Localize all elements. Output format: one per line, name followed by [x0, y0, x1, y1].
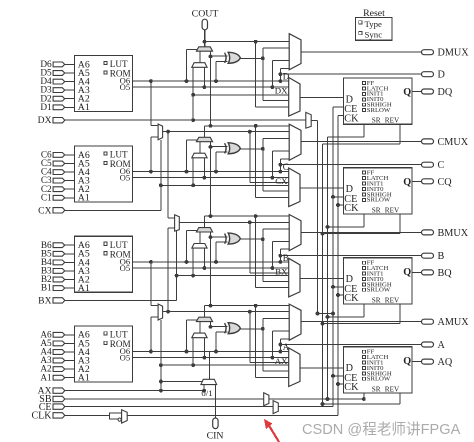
wire carry tap to output mux [205, 215, 290, 217]
wire XOR to output mux [262, 139, 264, 191]
wire [65, 188, 75, 190]
output pin CMUX [422, 139, 434, 144]
input pin B5 [53, 251, 65, 256]
wire CK branch [338, 204, 344, 206]
wire AMUX output [301, 321, 422, 323]
wire CX [65, 209, 161, 211]
wire XOR to FF mux [263, 100, 289, 102]
input pin B2 [53, 277, 65, 282]
CLK inverter option [110, 413, 122, 419]
output pin AMUX [422, 319, 434, 324]
carry DI mux C [192, 153, 207, 158]
wire DX to FF mux [193, 94, 289, 96]
svg-text:D: D [438, 70, 445, 81]
carry XOR gate XORCY C [225, 143, 227, 153]
wire O6 upper to F7BMUX [149, 79, 153, 83]
wire [65, 334, 75, 336]
svg-text:O5: O5 [120, 173, 131, 183]
wire DX up to DI mux [192, 67, 194, 120]
svg-text:AX: AX [275, 356, 288, 366]
carry mux MUXCY A [196, 317, 212, 321]
svg-text:LUT: LUT [110, 59, 128, 69]
svg-text:SRLOW: SRLOW [367, 287, 391, 294]
input pin D2 [53, 96, 65, 101]
wire C direct output [279, 163, 283, 167]
input pin A6 [53, 332, 65, 337]
svg-text:A1: A1 [78, 193, 90, 204]
wire O5 to output mux [271, 61, 273, 88]
svg-text:Sync: Sync [365, 30, 383, 40]
wire DQ output [412, 91, 422, 93]
SR option mux [264, 393, 269, 406]
output pin CQ [422, 179, 434, 184]
svg-text:DX: DX [38, 115, 52, 126]
input pin C1 [53, 195, 65, 200]
wire O6 A [133, 351, 290, 353]
FF input mux CFFMUX [289, 168, 300, 207]
wire O6 to output mux [279, 68, 281, 81]
svg-text:O5: O5 [120, 263, 131, 273]
wire D direct output [279, 72, 283, 76]
wire COUT [204, 30, 206, 47]
wire option mux out [311, 119, 317, 121]
CE option mux [273, 401, 278, 414]
svg-text:BX: BX [275, 267, 288, 277]
wire F7BMUX to FF mux [249, 132, 251, 183]
wire [65, 171, 75, 173]
wire [65, 377, 75, 379]
svg-text:CLK: CLK [32, 411, 53, 422]
svg-text:REV: REV [385, 117, 400, 125]
red annotation arrow [267, 422, 280, 442]
carry XOR gate XORCY A [225, 323, 227, 333]
svg-text:SRLOW: SRLOW [367, 376, 391, 383]
wire O5 C [133, 177, 290, 179]
wire carry to FF mux [255, 306, 257, 378]
wire [65, 81, 75, 83]
wire DI leg down to X branch [192, 248, 194, 276]
input pin C6 [53, 153, 65, 158]
carry chain B [204, 216, 206, 228]
wire O5 B [133, 267, 290, 269]
wire CIN to CYINIT [214, 385, 216, 418]
wire CLK row [65, 414, 338, 416]
wire DI right leg to O5 [203, 248, 205, 268]
carry XOR gate XORCY B [225, 234, 227, 244]
wire bus drop [317, 120, 319, 313]
wire CQ output [412, 180, 422, 182]
LUT C (A6LUT) [75, 146, 133, 202]
svg-text:SR: SR [372, 296, 381, 304]
input pin B3 [53, 269, 65, 274]
LUT A (A6LUT) [75, 326, 133, 382]
wire [65, 279, 75, 281]
carry chain D [204, 30, 206, 47]
input pin A5 [53, 341, 65, 346]
wire [65, 351, 75, 353]
wire REV stub [399, 304, 401, 324]
input pin A2 [53, 367, 65, 372]
wire carry tap to output mux [205, 41, 290, 43]
wire [65, 261, 75, 263]
wire XOR to output mux [262, 229, 264, 281]
output pin C [422, 162, 434, 167]
mux F7AMUX [158, 304, 163, 320]
svg-text:BX: BX [38, 295, 51, 306]
svg-text:Q: Q [403, 87, 411, 98]
wire F7AMUX select [160, 320, 162, 391]
wire CE branch [333, 196, 344, 198]
wire F8MUX select from BX [176, 231, 178, 300]
flip-flop AFF [344, 347, 413, 393]
input pin D4 [53, 79, 65, 84]
output mux BOUTMUX [289, 215, 301, 251]
svg-text:Q: Q [403, 267, 411, 278]
wire FF mux out to FF D input [300, 277, 344, 279]
input pin D6 [53, 62, 65, 67]
wire carry tap to output mux [205, 305, 290, 307]
svg-text:BQ: BQ [438, 268, 453, 279]
input pin BX [53, 298, 65, 303]
FF input mux BFFMUX [289, 258, 300, 297]
wire DMUX output [301, 51, 422, 53]
wire [65, 106, 75, 108]
svg-text:AMUX: AMUX [438, 317, 470, 328]
svg-text:Type: Type [365, 19, 383, 29]
svg-text:B: B [283, 253, 289, 263]
wire F7BMUX select [160, 140, 162, 211]
svg-text:CK: CK [344, 113, 359, 124]
wire [65, 244, 75, 246]
input pin AX [53, 388, 65, 393]
wire XOR output [240, 148, 262, 150]
wire BMUX output [301, 231, 422, 233]
svg-text:A1: A1 [78, 283, 90, 294]
wire XOR output [240, 238, 262, 240]
wire [65, 342, 75, 344]
wire O5 A [133, 357, 290, 359]
wire O6 lower to F7BMUX [149, 170, 153, 174]
flip-flop BFF [344, 258, 413, 304]
input pin A1 [53, 375, 65, 380]
wire DI leg down to X branch [192, 158, 194, 186]
svg-text:C1: C1 [41, 193, 52, 203]
svg-text:LUT: LUT [110, 329, 128, 339]
wire carry to FF mux [255, 42, 257, 107]
svg-text:C: C [438, 160, 445, 171]
svg-text:C: C [283, 162, 289, 172]
wire O5 D [133, 86, 290, 88]
wire carry to upper stage [210, 56, 212, 125]
output pin D [422, 72, 434, 77]
wire SB/SR row [65, 398, 364, 400]
svg-text:SRLOW: SRLOW [367, 197, 391, 204]
wire [65, 154, 75, 156]
flip-flop CFF [344, 168, 413, 214]
wire F8MUX output [179, 221, 289, 223]
wire [65, 72, 75, 74]
carry XOR gate XORCY D [225, 53, 227, 63]
wire [65, 253, 75, 255]
wire REV bus [322, 144, 324, 404]
svg-text:REV: REV [385, 206, 400, 214]
wire XOR lower input (O6) [214, 260, 218, 264]
wire XOR lower input (O6) [214, 350, 218, 354]
wire XOR to FF mux [263, 370, 289, 372]
wire XOR lower input (O6) [214, 170, 218, 174]
input pin A3 [53, 358, 65, 363]
COUT pin [202, 19, 207, 30]
CIN pin [213, 418, 218, 429]
wire carry to upper stage [210, 237, 212, 306]
input pin CE [53, 404, 65, 409]
wire BX to FF mux [177, 275, 290, 277]
wire DI right leg to O5 [203, 338, 205, 358]
svg-text:CMUX: CMUX [438, 137, 469, 148]
wire AX to CYINIT select [161, 381, 203, 383]
output pin AQ [422, 359, 434, 364]
FF input mux DFFMUX [289, 78, 300, 117]
LUT D (A6LUT) [75, 56, 133, 112]
carry mux MUXCY D [196, 47, 212, 51]
svg-text:SR: SR [372, 117, 381, 125]
carry chain C [204, 126, 206, 138]
svg-text:CQ: CQ [438, 177, 453, 188]
LUT B (A6LUT) [75, 236, 133, 292]
wire O6 lower to F7AMUX [149, 350, 153, 354]
wire O6 upper to F7AMUX [149, 260, 153, 264]
wire carry tap to output mux [205, 125, 290, 127]
wire MUXCY CI leg [210, 322, 212, 327]
wire SR stub [363, 393, 365, 399]
wire MUXCY CI leg [210, 142, 212, 147]
wire XOR upper input (carry) [211, 236, 228, 238]
wire XOR upper input (carry) [211, 55, 228, 57]
output mux AOUTMUX [289, 304, 301, 340]
wire MUXCY DI leg [199, 142, 201, 154]
wire DI right leg to O5 [203, 158, 205, 178]
svg-text:CSDN @程老师讲FPGA: CSDN @程老师讲FPGA [302, 421, 461, 438]
wire [65, 163, 75, 165]
carry init mux CYINIT 0/1 [201, 379, 217, 384]
svg-text:CX: CX [275, 176, 288, 186]
wire SR stub [363, 124, 365, 137]
wire FF mux out to FF D input [300, 367, 344, 369]
wire [65, 63, 75, 65]
wire [65, 368, 75, 370]
output pin BQ [422, 270, 434, 275]
output pin DQ [422, 89, 434, 94]
wire DI leg down to X branch [192, 338, 194, 366]
wire F7BMUX output [163, 131, 290, 133]
svg-text:Q: Q [403, 356, 411, 367]
wire F7AMUX to FF mux [249, 312, 251, 363]
wire CE row [65, 406, 333, 408]
svg-text:O5: O5 [120, 82, 131, 92]
svg-text:BMUX: BMUX [438, 228, 469, 239]
svg-text:REV: REV [385, 385, 400, 393]
wire AQ output [412, 361, 422, 363]
wire DI right leg to O5 [203, 67, 205, 87]
wire O5 to output mux [271, 151, 273, 178]
svg-text:SR: SR [372, 385, 381, 393]
wire O6 to MUXCY select [185, 260, 189, 264]
wire AX to CYINIT [203, 385, 205, 391]
carry DI mux B [192, 244, 207, 249]
svg-text:CK: CK [344, 382, 359, 393]
wire CYINIT output to carry chain [208, 352, 210, 379]
input pin DX [53, 118, 65, 123]
svg-text:A: A [438, 340, 446, 351]
input pin C2 [53, 187, 65, 192]
svg-text:SRLOW: SRLOW [367, 107, 391, 114]
svg-text:CK: CK [344, 293, 359, 304]
wire O6 to output mux [279, 249, 281, 262]
wire A direct output [279, 343, 283, 347]
input pin B1 [53, 286, 65, 291]
svg-text:A1: A1 [78, 373, 90, 384]
svg-text:CK: CK [344, 203, 359, 214]
wire XOR to FF mux [263, 280, 289, 282]
wire MUXCY CI leg [210, 51, 212, 56]
svg-text:DX: DX [275, 86, 288, 96]
svg-text:0/1: 0/1 [201, 388, 212, 398]
wire XOR upper input (carry) [211, 146, 228, 148]
input pin B6 [53, 243, 65, 248]
input pin CLK [53, 413, 65, 418]
input pin A4 [53, 350, 65, 355]
wire SR stub [363, 304, 365, 317]
wire [65, 180, 75, 182]
output pin A [422, 342, 434, 347]
wire CE branch [333, 286, 344, 288]
wire CK branch [338, 294, 344, 296]
FF input mux AFFMUX [289, 348, 300, 387]
svg-text:D1: D1 [40, 103, 52, 113]
svg-text:LUT: LUT [110, 150, 128, 160]
carry chain A [204, 306, 206, 318]
wire FF mux out to FF D input [300, 187, 344, 189]
svg-text:DQ: DQ [438, 87, 453, 98]
svg-text:COUT: COUT [192, 9, 219, 20]
output mux COUTMUX [289, 124, 301, 160]
wire O6 C [133, 171, 290, 173]
wire B direct output [279, 254, 283, 258]
wire O6 to output mux [279, 159, 281, 172]
svg-text:CIN: CIN [207, 431, 224, 442]
wire XOR output [240, 57, 262, 59]
wire XOR to output mux [262, 48, 264, 100]
wire [65, 287, 75, 289]
wire [65, 270, 75, 272]
svg-text:A1: A1 [40, 373, 52, 383]
wire O5 to output mux [271, 241, 273, 268]
wire XOR upper input (carry) [211, 326, 228, 328]
svg-text:Q: Q [403, 177, 411, 188]
wire MUXCY CI leg [210, 232, 212, 237]
input pin C4 [53, 170, 65, 175]
wire AX to FF mux [161, 364, 289, 366]
input pin D3 [53, 88, 65, 93]
wire [65, 89, 75, 91]
wire BQ output [412, 271, 422, 273]
wire XOR output [240, 328, 262, 330]
output pin BMUX [422, 230, 434, 235]
wire O6 to MUXCY select [185, 350, 189, 354]
wire carry to FF mux [255, 216, 257, 288]
wire SR stub [363, 214, 365, 227]
svg-text:B1: B1 [41, 284, 52, 294]
wire FF mux out to FF D input [300, 97, 344, 99]
clock option mux [306, 112, 311, 128]
input pin D1 [53, 105, 65, 110]
wire CK bus [337, 115, 339, 415]
svg-text:AQ: AQ [438, 357, 453, 368]
wire REV stub [399, 124, 401, 144]
mux F8MUX [175, 215, 180, 231]
wire CMUX output [301, 140, 422, 142]
input pin D5 [53, 71, 65, 76]
wire SR bus [327, 137, 329, 399]
svg-text:CX: CX [38, 205, 51, 216]
input pin CX [53, 208, 65, 213]
wire O6 to output mux [279, 339, 281, 352]
wire REV stub [399, 214, 401, 234]
wire O6 B [133, 261, 290, 263]
wire F7BMUX out to F8MUX [167, 132, 169, 218]
carry mux MUXCY B [196, 228, 212, 232]
wire O6 to MUXCY select [185, 79, 189, 83]
wire F7AMUX out to F8MUX [167, 228, 169, 312]
wire XOR to FF mux [263, 190, 289, 192]
mux F7BMUX [158, 124, 163, 140]
input pin SB [53, 396, 65, 401]
wire MUXCY DI leg [199, 232, 201, 244]
flip-flop DFF [344, 78, 413, 124]
wire CE branch [333, 106, 344, 108]
input pin C3 [53, 178, 65, 183]
wire AX [65, 390, 204, 392]
wire XOR to output mux [262, 319, 264, 371]
wire F8MUX to FF mux [249, 222, 251, 272]
svg-text:A1: A1 [78, 102, 90, 113]
svg-text:REV: REV [385, 296, 400, 304]
wire O5 to output mux [271, 331, 273, 358]
wire carry to upper stage [210, 147, 212, 216]
wire O6 D [133, 80, 290, 82]
wire F7AMUX output [163, 311, 290, 313]
input pin B4 [53, 260, 65, 265]
wire CE bus [332, 107, 334, 406]
carry DI mux D [192, 63, 207, 68]
wire CE branch [333, 375, 344, 377]
wire [65, 360, 75, 362]
input pin C5 [53, 161, 65, 166]
wire [65, 98, 75, 100]
carry mux MUXCY C [196, 137, 212, 141]
output mux DOUTMUX [289, 34, 301, 70]
output pin B [422, 253, 434, 258]
wire DX [65, 119, 306, 121]
wire [65, 197, 75, 199]
svg-text:SR: SR [372, 206, 381, 214]
svg-text:O5: O5 [120, 353, 131, 363]
wire CK branch [338, 114, 344, 116]
wire BX [65, 299, 177, 301]
svg-text:LUT: LUT [110, 240, 128, 250]
carry DI mux A [192, 333, 207, 338]
wire XOR lower input (O6) [214, 79, 218, 83]
